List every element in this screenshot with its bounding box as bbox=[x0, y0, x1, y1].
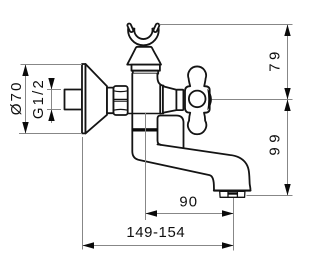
svg-text:149-154: 149-154 bbox=[126, 225, 185, 241]
svg-text:Ø70: Ø70 bbox=[8, 81, 25, 116]
svg-text:99: 99 bbox=[268, 130, 284, 156]
svg-text:G1/2: G1/2 bbox=[31, 78, 47, 119]
svg-text:79: 79 bbox=[268, 48, 284, 71]
svg-text:90: 90 bbox=[179, 194, 198, 210]
